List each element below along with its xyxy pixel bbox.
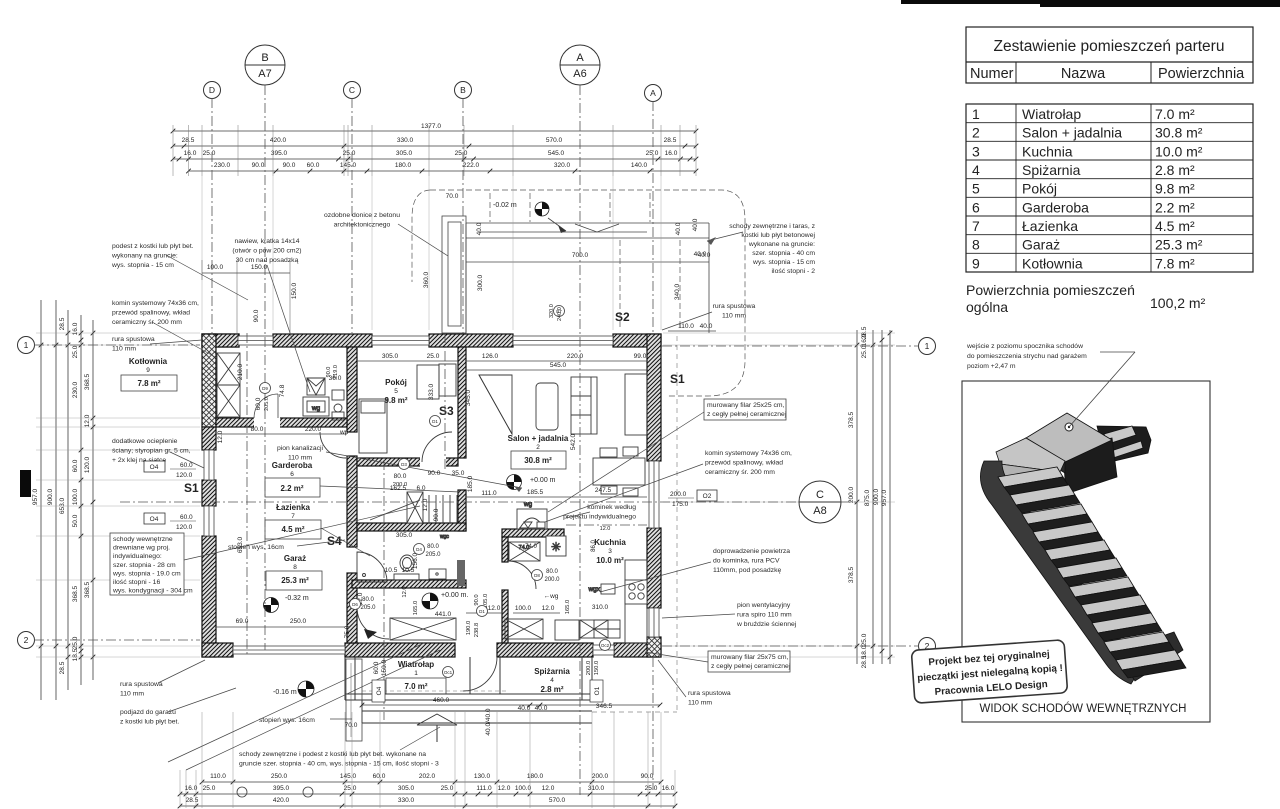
- svg-text:395.0: 395.0: [273, 785, 290, 792]
- kotlownia washer: [303, 397, 329, 416]
- svg-text:74.0: 74.0: [525, 544, 537, 550]
- svg-text:378.5: 378.5: [848, 566, 855, 583]
- svg-text:310.0: 310.0: [588, 785, 605, 792]
- svg-text:570.0: 570.0: [549, 797, 566, 804]
- svg-text:28.5: 28.5: [59, 317, 66, 330]
- svg-text:projektu indywidualnego: projektu indywidualnego: [563, 514, 636, 521]
- svg-text:305.0: 305.0: [396, 150, 413, 157]
- svg-text:74.8: 74.8: [279, 384, 286, 397]
- svg-text:16.0: 16.0: [665, 150, 678, 157]
- svg-text:Garaż: Garaż: [1022, 237, 1060, 253]
- svg-text:25.0: 25.0: [861, 633, 868, 646]
- svg-text:wgc: wgc: [440, 534, 449, 540]
- svg-text:12.0: 12.0: [84, 414, 91, 427]
- svg-text:230.0: 230.0: [72, 381, 79, 398]
- svg-text:Kuchnia: Kuchnia: [594, 538, 626, 547]
- outer stringer curved band: [980, 461, 1141, 684]
- svg-text:420.0: 420.0: [273, 797, 290, 804]
- svg-text:165.0: 165.0: [413, 601, 419, 616]
- entry platform lines: [362, 699, 592, 701]
- svg-text:wys. stopnia - 19.0 cm: wys. stopnia - 19.0 cm: [112, 570, 181, 577]
- svg-text:222.0: 222.0: [463, 162, 480, 169]
- svg-text:dodatkowe ocieplenie: dodatkowe ocieplenie: [112, 438, 178, 445]
- terrace dashed rounded outline: [430, 190, 745, 396]
- bottom-left circled marker: [237, 787, 247, 797]
- svg-text:8: 8: [972, 237, 980, 253]
- svg-text:110 mm: 110 mm: [722, 313, 746, 320]
- svg-text:542.0: 542.0: [570, 433, 577, 450]
- svg-text:110.0: 110.0: [210, 773, 226, 780]
- svg-text:230.0: 230.0: [214, 162, 231, 169]
- svg-text:25.0: 25.0: [646, 150, 659, 157]
- svg-text:podjazd do garażu: podjazd do garażu: [120, 709, 176, 716]
- svg-text:D8: D8: [534, 573, 540, 578]
- svg-text:25.0: 25.0: [203, 785, 216, 792]
- svg-text:25.0: 25.0: [441, 785, 454, 792]
- svg-text:110mm, pod posadzkę: 110mm, pod posadzkę: [713, 567, 781, 574]
- svg-text:100.0: 100.0: [515, 785, 532, 792]
- svg-text:130.0: 130.0: [474, 773, 491, 780]
- svg-text:A6: A6: [573, 68, 586, 80]
- svg-text:9.8 m²: 9.8 m²: [1155, 181, 1195, 197]
- scan artifact: top right black bar: [901, 0, 1280, 4]
- landing top face: [1026, 413, 1112, 462]
- winder tread a: [996, 438, 1065, 472]
- svg-text:2.2 m²: 2.2 m²: [280, 484, 303, 493]
- svg-text:180.0: 180.0: [395, 162, 412, 169]
- svg-text:60.0: 60.0: [72, 459, 79, 472]
- svg-text:40.0: 40.0: [694, 251, 707, 258]
- svg-text:Wiatrołap: Wiatrołap: [1022, 106, 1081, 122]
- svg-text:gruncie szer. stopnia - 40 cm,: gruncie szer. stopnia - 40 cm, wys. stop…: [239, 761, 439, 768]
- svg-text:12.0: 12.0: [542, 605, 555, 612]
- svg-text:2.8 m²: 2.8 m²: [540, 685, 563, 694]
- svg-text:320.0: 320.0: [549, 304, 555, 318]
- svg-text:240.0: 240.0: [557, 307, 563, 321]
- svg-text:12.0: 12.0: [600, 526, 611, 532]
- svg-text:rura spustowa: rura spustowa: [112, 336, 155, 343]
- entry arrow triangle: [417, 714, 457, 725]
- interior wall V3 (stairwell right): [458, 490, 466, 531]
- svg-text:190.0: 190.0: [466, 621, 472, 636]
- window top 1: [238, 336, 273, 345]
- kotlownia nawiew bowtie: [307, 378, 325, 395]
- svg-text:40.0: 40.0: [692, 218, 699, 231]
- window left 2: [204, 506, 214, 536]
- svg-text:+0.00 m.: +0.00 m.: [441, 592, 468, 599]
- svg-text:przewód spalinowy, wkład: przewód spalinowy, wkład: [705, 460, 783, 467]
- bottom window: [593, 645, 614, 655]
- svg-text:8: 8: [293, 564, 297, 571]
- svg-text:12.0: 12.0: [488, 605, 501, 612]
- svg-text:150.0: 150.0: [594, 661, 600, 676]
- svg-text:Garderoba: Garderoba: [272, 461, 313, 470]
- svg-text:545.0: 545.0: [548, 150, 565, 157]
- svg-text:przewód spalinowy, wkład: przewód spalinowy, wkład: [112, 310, 190, 317]
- svg-text:A7: A7: [258, 68, 271, 80]
- svg-text:60.0: 60.0: [180, 462, 193, 469]
- svg-text:Powierzchnia: Powierzchnia: [1158, 66, 1245, 82]
- svg-text:architektonicznego: architektonicznego: [334, 222, 391, 229]
- svg-text:do kominka, rura PCV: do kominka, rura PCV: [713, 558, 780, 565]
- svg-text:70.0: 70.0: [345, 722, 358, 729]
- svg-text:200.0: 200.0: [670, 491, 687, 498]
- svg-text:3: 3: [608, 548, 612, 555]
- svg-text:18.5: 18.5: [72, 648, 79, 661]
- pokoj bed: [359, 399, 387, 453]
- svg-text:202.0: 202.0: [419, 773, 436, 780]
- svg-text:wys. stopnia - 15 cm: wys. stopnia - 15 cm: [752, 259, 815, 266]
- svg-text:6: 6: [972, 199, 980, 215]
- svg-text:368.5: 368.5: [72, 585, 79, 602]
- svg-text:90.0: 90.0: [641, 773, 654, 780]
- svg-text:WIDOK SCHODÓW WEWNĘTRZNYCH: WIDOK SCHODÓW WEWNĘTRZNYCH: [980, 702, 1187, 715]
- svg-text:D: D: [209, 85, 215, 95]
- svg-text:28.5: 28.5: [664, 137, 677, 144]
- svg-text:9: 9: [972, 255, 980, 271]
- svg-text:40.0: 40.0: [675, 222, 682, 235]
- small dashed verticals: [490, 193, 680, 330]
- svg-text:4: 4: [972, 162, 980, 178]
- svg-text:25.0: 25.0: [427, 353, 440, 360]
- svg-text:40.0/40.0: 40.0/40.0: [485, 708, 492, 735]
- dining table + chairs: [593, 458, 645, 485]
- exterior top wall: [202, 334, 239, 347]
- svg-text:25.0: 25.0: [645, 785, 658, 792]
- svg-text:podest z kostki lub płyt bet.: podest z kostki lub płyt bet.: [112, 243, 194, 250]
- svg-text:A: A: [650, 88, 656, 98]
- landing block dark under: [1063, 438, 1117, 494]
- svg-text:250.0: 250.0: [271, 773, 288, 780]
- interior wall V1 (left column divider): [347, 347, 357, 432]
- svg-text:10.0 m²: 10.0 m²: [1155, 143, 1203, 159]
- svg-text:30.8 m²: 30.8 m²: [524, 456, 552, 465]
- svg-text:4: 4: [550, 677, 554, 684]
- svg-text:100,2 m²: 100,2 m²: [1150, 295, 1206, 311]
- svg-text:320.0: 320.0: [554, 162, 571, 169]
- svg-text:doprowadzenie powietrza: doprowadzenie powietrza: [713, 548, 790, 555]
- svg-text:Oc2: Oc2: [601, 643, 610, 648]
- svg-text:Salon + jadalnia: Salon + jadalnia: [508, 434, 569, 443]
- svg-text:D1: D1: [432, 419, 438, 424]
- lazienka wc: [429, 569, 446, 579]
- svg-text:1: 1: [414, 670, 418, 677]
- svg-text:80.0: 80.0: [394, 473, 407, 480]
- svg-text:86.0: 86.0: [591, 540, 597, 552]
- svg-text:Spiżarnia: Spiżarnia: [1022, 162, 1081, 178]
- svg-text:90.0: 90.0: [326, 367, 332, 378]
- svg-text:-0.16 m: -0.16 m: [273, 689, 297, 696]
- svg-text:ceramiczny śr. 200 mm: ceramiczny śr. 200 mm: [705, 469, 775, 476]
- svg-text:C: C: [349, 85, 355, 95]
- window left 1: [204, 450, 214, 480]
- svg-text:200.0: 200.0: [586, 661, 592, 676]
- svg-text:12.0: 12.0: [498, 785, 511, 792]
- svg-text:✳: ✳: [551, 540, 561, 554]
- svg-text:2: 2: [972, 125, 980, 141]
- svg-text:z kostki lub płyt bet.: z kostki lub płyt bet.: [120, 719, 179, 726]
- svg-text:90.0: 90.0: [433, 508, 440, 521]
- upper flight to attic (right): [1097, 426, 1151, 463]
- small X mat right: [580, 620, 608, 638]
- svg-text:kostki lub płyt betonowej: kostki lub płyt betonowej: [741, 232, 815, 239]
- svg-text:165.0: 165.0: [565, 600, 571, 615]
- svg-text:A8: A8: [813, 505, 826, 517]
- svg-text:indywidualnego:: indywidualnego:: [113, 553, 162, 560]
- window top 3 (salon): [513, 336, 613, 345]
- svg-text:60.0: 60.0: [373, 773, 386, 780]
- svg-text:50.0: 50.0: [72, 514, 79, 527]
- extra section dash lines: [247, 333, 445, 720]
- svg-text:7.0 m²: 7.0 m²: [1155, 106, 1195, 122]
- svg-text:110.0: 110.0: [678, 323, 694, 330]
- svg-text:O4: O4: [150, 464, 159, 471]
- svg-text:1: 1: [24, 340, 29, 350]
- svg-text:wejście z poziomu spocznika sc: wejście z poziomu spocznika schodów: [966, 343, 1083, 350]
- -0.32 garage: [264, 598, 279, 613]
- svg-text:110 mm: 110 mm: [112, 346, 136, 353]
- svg-text:545.0: 545.0: [550, 362, 567, 369]
- interior wall H3 (stairs / lazienka): [357, 523, 466, 531]
- pokoj door arc: [422, 432, 452, 462]
- svg-text:-0.02 m: -0.02 m: [493, 202, 517, 209]
- svg-text:O4: O4: [150, 516, 159, 523]
- svg-text:1: 1: [925, 341, 930, 351]
- dark filled wall stub: [457, 560, 465, 586]
- svg-text:111.0: 111.0: [476, 785, 492, 792]
- svg-text:w bruździe ściennej: w bruździe ściennej: [736, 621, 797, 628]
- kitchen bottom cabinets: [594, 620, 620, 638]
- svg-text:110 mm: 110 mm: [120, 691, 144, 698]
- svg-text:9: 9: [146, 367, 150, 374]
- svg-text:200.0: 200.0: [544, 577, 560, 583]
- svg-text:wys. stopnia - 15 cm: wys. stopnia - 15 cm: [111, 262, 174, 269]
- svg-text:A: A: [576, 52, 584, 64]
- svg-text:murowany filar 25x75 cm,: murowany filar 25x75 cm,: [711, 654, 789, 661]
- main flight treads: [998, 467, 1186, 678]
- svg-text:460.0: 460.0: [433, 697, 450, 704]
- svg-text:200.0: 200.0: [592, 773, 609, 780]
- svg-text:Garaż: Garaż: [284, 554, 306, 563]
- svg-text:12.0: 12.0: [542, 785, 555, 792]
- svg-text:Kuchnia: Kuchnia: [1022, 143, 1073, 159]
- svg-text:komin systemowy 74x36 cm,: komin systemowy 74x36 cm,: [705, 450, 792, 457]
- pokoj desk: [417, 365, 439, 399]
- svg-text:80.0: 80.0: [251, 426, 264, 433]
- svg-text:25.0: 25.0: [343, 150, 356, 157]
- svg-text:420.0: 420.0: [270, 137, 287, 144]
- svg-text:25.0: 25.0: [72, 345, 79, 358]
- svg-text:185.5: 185.5: [527, 489, 544, 496]
- svg-text:395.0: 395.0: [271, 150, 288, 157]
- svg-text:247.5: 247.5: [595, 487, 612, 494]
- svg-text:100.0: 100.0: [72, 488, 79, 505]
- svg-text:Salon + jadalnia: Salon + jadalnia: [1022, 125, 1122, 141]
- svg-text:rura spustowa: rura spustowa: [688, 690, 731, 697]
- garage-hall door arc + arrow: [357, 607, 389, 639]
- svg-text:C: C: [816, 489, 824, 501]
- svg-text:957.0: 957.0: [881, 489, 888, 506]
- svg-text:368.5: 368.5: [84, 373, 91, 390]
- dimension chains: [32, 123, 895, 808]
- svg-text:7.8 m²: 7.8 m²: [1155, 255, 1195, 271]
- svg-text:wgx: wgx: [587, 586, 600, 593]
- svg-text:-0.32 m: -0.32 m: [285, 595, 309, 602]
- 3D stairs isometric: [980, 413, 1183, 684]
- svg-text:D6: D6: [352, 602, 358, 607]
- svg-text:40.0: 40.0: [700, 323, 713, 330]
- svg-text:kominek według: kominek według: [587, 504, 636, 511]
- svg-text:10.5: 10.5: [402, 567, 415, 574]
- svg-text:4.5 m²: 4.5 m²: [1155, 218, 1195, 234]
- svg-text:900.0: 900.0: [873, 488, 880, 505]
- svg-text:80.0: 80.0: [362, 597, 374, 603]
- pokoj wardrobe: [439, 364, 456, 396]
- svg-text:305.0: 305.0: [396, 532, 413, 539]
- +0.00 salon: [507, 475, 522, 490]
- svg-text:Powierzchnia pomieszczeń: Powierzchnia pomieszczeń: [966, 282, 1135, 298]
- kitchen counter right: [625, 560, 647, 643]
- svg-text:S1: S1: [670, 372, 685, 386]
- svg-text:40.0: 40.0: [476, 222, 483, 235]
- svg-text:Garderoba: Garderoba: [1022, 199, 1089, 215]
- svg-text:145.0: 145.0: [340, 773, 357, 780]
- svg-text:28.5: 28.5: [182, 137, 195, 144]
- svg-text:80.0: 80.0: [546, 569, 558, 575]
- svg-text:238.8: 238.8: [474, 623, 480, 638]
- svg-text:12.0: 12.0: [422, 498, 429, 511]
- svg-text:60.0: 60.0: [255, 397, 262, 410]
- svg-text:poziom +2,47 m: poziom +2,47 m: [967, 363, 1016, 370]
- svg-text:3: 3: [972, 143, 980, 159]
- svg-text:D3: D3: [401, 462, 407, 467]
- svg-text:1: 1: [972, 106, 980, 122]
- svg-text:nawiew, kratka 14x14: nawiew, kratka 14x14: [235, 238, 300, 245]
- exterior left wall: [202, 334, 216, 427]
- stove burners: [625, 580, 647, 604]
- svg-text:2.8 m²: 2.8 m²: [1155, 162, 1195, 178]
- svg-text:330.0: 330.0: [397, 137, 414, 144]
- svg-text:80.0: 80.0: [427, 544, 439, 550]
- interior wall H1 (kotlownia bottom): [216, 418, 347, 427]
- svg-text:Łazienka: Łazienka: [276, 503, 310, 512]
- svg-text:30 cm nad posadzką: 30 cm nad posadzką: [236, 257, 299, 264]
- svg-text:70.0: 70.0: [446, 193, 459, 200]
- lazienka sink: [400, 555, 414, 571]
- svg-text:28.5: 28.5: [186, 797, 199, 804]
- svg-text:←wg: ←wg: [544, 593, 559, 600]
- star box: [546, 536, 566, 556]
- exterior right wall: [647, 334, 661, 461]
- svg-text:90.0: 90.0: [474, 594, 480, 605]
- svg-text:340.0: 340.0: [674, 283, 681, 300]
- svg-text:S1: S1: [184, 481, 199, 495]
- svg-text:szer. stopnia - 40 cm: szer. stopnia - 40 cm: [752, 250, 815, 257]
- spizarnia X mat: [505, 619, 543, 639]
- svg-text:rura spiro 110 mm: rura spiro 110 mm: [737, 612, 792, 619]
- terrace slab solid edges: [466, 222, 709, 224]
- svg-text:drewniane wg proj.: drewniane wg proj.: [113, 545, 170, 552]
- svg-text:378.5: 378.5: [848, 411, 855, 428]
- svg-text:175.0: 175.0: [672, 501, 689, 508]
- svg-text:330.0: 330.0: [398, 797, 415, 804]
- svg-text:2: 2: [536, 444, 540, 451]
- outside steps column left of vestibule: [346, 659, 362, 741]
- +0.00 wiatrolap: [422, 593, 438, 609]
- svg-text:220.0: 220.0: [305, 426, 322, 433]
- svg-text:murowany filar 25x25 cm,: murowany filar 25x25 cm,: [707, 402, 785, 409]
- kitchen fridge: [555, 620, 579, 640]
- svg-text:rura spustowa: rura spustowa: [120, 681, 163, 688]
- interior wall V4 (kitchen left): [502, 537, 508, 562]
- garderoba door arc: [320, 432, 346, 458]
- kitchen door arc: [508, 561, 536, 589]
- svg-text:5: 5: [394, 388, 398, 395]
- svg-text:150.0: 150.0: [381, 659, 388, 676]
- svg-text:60.0: 60.0: [307, 162, 320, 169]
- svg-text:25.3 m²: 25.3 m²: [281, 576, 309, 585]
- scan artifact: left edge black blot: [20, 470, 31, 497]
- svg-text:205.0: 205.0: [264, 397, 270, 411]
- svg-text:6: 6: [290, 471, 294, 478]
- svg-text:653.0: 653.0: [237, 536, 244, 553]
- svg-text:110 mm: 110 mm: [288, 455, 312, 462]
- svg-text:99.0: 99.0: [634, 353, 647, 360]
- svg-text:O1: O1: [594, 686, 601, 695]
- in-plan dims: [202, 193, 707, 702]
- svg-text:pion wentylacyjny: pion wentylacyjny: [737, 602, 791, 609]
- svg-text:60.0: 60.0: [180, 514, 193, 521]
- svg-text:Zestawienie pomieszczeń parter: Zestawienie pomieszczeń parteru: [994, 38, 1225, 55]
- svg-text:Pokój: Pokój: [385, 378, 407, 387]
- svg-text:60.0: 60.0: [373, 661, 380, 674]
- exterior bottom wall: [202, 643, 233, 657]
- stairs in plan: [370, 492, 457, 523]
- svg-text:90.0: 90.0: [253, 309, 260, 322]
- kotlownia chimney cross box: [217, 353, 240, 417]
- kitchen top wall H5: [502, 529, 564, 537]
- svg-text:16.0: 16.0: [185, 785, 198, 792]
- svg-text:120.0: 120.0: [176, 524, 193, 531]
- svg-text:2: 2: [24, 635, 29, 645]
- leader text above stairs panel: [966, 343, 1135, 427]
- landing circle marker: [1065, 423, 1073, 431]
- landing left edge: [1026, 438, 1065, 473]
- svg-text:5: 5: [972, 181, 980, 197]
- slope V mark: [575, 224, 619, 232]
- svg-text:ozdobne donice z betonu: ozdobne donice z betonu: [324, 212, 400, 219]
- svg-text:7: 7: [291, 513, 295, 520]
- fireplace box with mound: [517, 509, 547, 529]
- svg-text:120.0: 120.0: [84, 456, 91, 473]
- svg-text:Kotłownia: Kotłownia: [1022, 255, 1083, 271]
- -0.02 terrace top: [535, 202, 549, 216]
- svg-text:4.5 m²: 4.5 m²: [281, 525, 304, 534]
- svg-text:z cegły pełnej ceramicznej: z cegły pełnej ceramicznej: [711, 663, 791, 670]
- svg-text:ilość stopni - 2: ilość stopni - 2: [772, 268, 816, 275]
- svg-text:441.0: 441.0: [435, 611, 452, 618]
- svg-text:25.0: 25.0: [344, 785, 357, 792]
- svg-text:346.5: 346.5: [596, 703, 613, 710]
- data rows box: [966, 104, 1253, 272]
- svg-text:wp: wp: [339, 429, 349, 436]
- svg-text:210.0: 210.0: [237, 363, 244, 380]
- right terrace door: [649, 461, 659, 528]
- svg-text:wykonane na gruncie:: wykonane na gruncie:: [748, 241, 815, 248]
- column header row: [1015, 62, 1017, 83]
- svg-text:schody zewnętrzne i podest z k: schody zewnętrzne i podest z kostki lub …: [239, 751, 426, 758]
- wiatrolap X mat: [390, 618, 456, 640]
